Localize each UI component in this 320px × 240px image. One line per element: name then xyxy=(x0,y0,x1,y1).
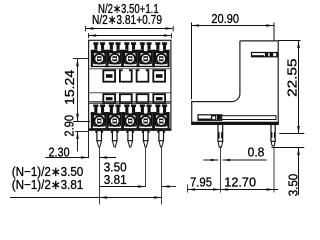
side view upper clamp mechanism xyxy=(252,53,278,57)
arrowheads overall width 3.50 variant xyxy=(89,34,172,37)
dimension line overall width 3.81 variant xyxy=(86,26,174,32)
svg-text:2.90: 2.90 xyxy=(61,115,76,137)
terminal B4 bottom row pole 4 xyxy=(137,105,154,130)
arrowheads 2.30 xyxy=(81,156,107,159)
pin P5 front view xyxy=(157,131,165,147)
window W7 row 2 xyxy=(137,94,149,103)
pin P2 front view xyxy=(111,131,119,147)
arrowheads pitch xyxy=(138,185,170,188)
dimension line 22.55 xyxy=(298,41,300,134)
parting line below top row xyxy=(89,68,170,70)
arrowheads 20.90 xyxy=(192,24,274,27)
side view housing bottom edge band xyxy=(192,122,279,125)
dimension line 7.95 / 12.70 xyxy=(188,189,279,191)
side view housing outline xyxy=(192,41,279,125)
svg-text:22.55: 22.55 xyxy=(285,59,300,97)
arrowheads overall width 3.81 variant xyxy=(86,27,173,30)
terminal B5 bottom row pole 5 xyxy=(153,105,170,130)
terminal B1 bottom row pole 1 xyxy=(91,105,108,130)
side view contact strip xyxy=(222,116,276,120)
dimension line 0.8 xyxy=(203,159,266,161)
terminal B2 bottom row pole 2 xyxy=(106,105,123,130)
dimension line overall width 3.50 variant xyxy=(89,33,172,38)
extension line side rear pin xyxy=(273,146,275,193)
dimension tail 2.90 xyxy=(77,132,79,152)
svg-text:(N−1)/2∗3.81: (N−1)/2∗3.81 xyxy=(12,177,84,192)
arrowheads 22.55 xyxy=(297,41,300,134)
extension line 20.90 right xyxy=(273,23,275,41)
extension line 22.55 top xyxy=(279,40,301,42)
arrowheads 15.24 / 2.90 xyxy=(76,59,79,139)
dimension line 20.90 xyxy=(192,25,275,27)
side view lower clamp mechanism xyxy=(198,115,222,121)
arrowheads 0.8 xyxy=(211,159,230,162)
arrowheads pin span xyxy=(100,196,162,199)
pin P3 front view xyxy=(126,131,134,147)
svg-text:7.95: 7.95 xyxy=(190,175,212,190)
svg-text:20.90: 20.90 xyxy=(211,11,239,26)
svg-text:3.50: 3.50 xyxy=(285,174,300,197)
terminal B3 bottom row pole 3 xyxy=(122,105,139,130)
dimension line pitch xyxy=(100,186,177,188)
arrowhead 3.50 pin length xyxy=(297,148,300,156)
svg-text:12.70: 12.70 xyxy=(224,175,256,190)
rail line upper xyxy=(89,101,170,103)
terminal A2 top row pole 2 xyxy=(106,42,123,67)
window W1 row 1 xyxy=(103,70,115,81)
front view housing outline xyxy=(89,40,171,130)
extension line side left xyxy=(187,185,189,193)
svg-text:0.8: 0.8 xyxy=(248,145,265,160)
window W8 row 2 xyxy=(153,94,165,103)
extension line 22.55 bottom xyxy=(279,133,304,135)
extension lines row spacing 15.24 and 2.90 xyxy=(73,59,90,132)
extension line side front pin xyxy=(220,146,222,192)
terminal A5 top row pole 5 xyxy=(153,42,170,67)
dimension line 2.30 xyxy=(45,131,116,158)
side view rear pin xyxy=(271,124,275,145)
rail line lower xyxy=(89,102,170,104)
pin P1 front view xyxy=(95,131,103,147)
extension line side view left edge xyxy=(191,23,193,100)
dimension line pin span xyxy=(10,197,162,199)
svg-text:3.81: 3.81 xyxy=(104,172,127,187)
extension line 3.50 pin length xyxy=(272,147,305,149)
terminal A1 top row pole 1 xyxy=(91,42,108,67)
window W5 row 2 xyxy=(103,94,115,103)
window W4 row 1 xyxy=(153,70,165,81)
svg-text:15.24: 15.24 xyxy=(62,70,77,105)
window W3 row 1 xyxy=(137,69,149,82)
extension line pin P4 xyxy=(145,148,147,187)
extension line pin P1 xyxy=(99,148,101,205)
pin P4 front view xyxy=(142,131,150,147)
window W2 row 1 xyxy=(120,69,132,82)
terminal A3 top row pole 3 xyxy=(122,42,139,67)
arrowheads 7.95 / 12.70 xyxy=(188,188,275,191)
dimension tail 3.50 pin length xyxy=(298,148,300,196)
extension line pin P5 xyxy=(161,148,163,205)
dimension line 15.24 xyxy=(77,59,79,121)
side view front pin xyxy=(218,124,223,147)
svg-text:N/2∗3.81+0.79: N/2∗3.81+0.79 xyxy=(92,12,162,27)
window W6 row 2 xyxy=(120,94,132,103)
parting line mid housing xyxy=(89,92,170,94)
front view housing bottom edge band xyxy=(88,128,171,130)
terminal A4 top row pole 4 xyxy=(137,42,154,67)
